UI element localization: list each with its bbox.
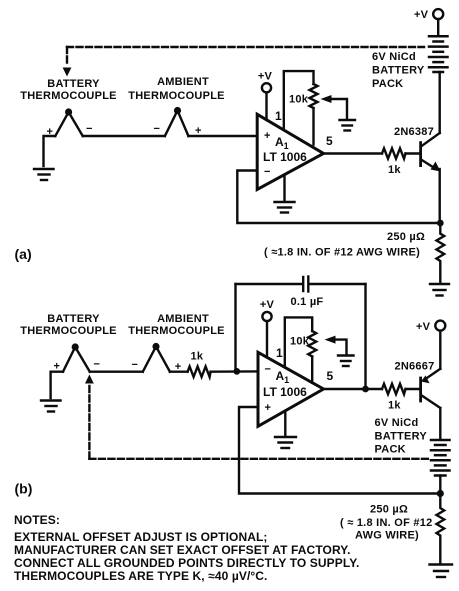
potentiometer 10k (b) [308,331,316,357]
ambient thermocouple junction (b) [143,343,170,372]
svg-text:6V NiCd: 6V NiCd [375,417,419,429]
emitter wire down to sense node (a) [439,169,441,223]
svg-text:0.1 µF: 0.1 µF [291,296,324,308]
cap left leg down to - input node (b) [234,284,236,371]
svg-text:MANUFACTURER CAN SET EXACT OFF: MANUFACTURER CAN SET EXACT OFFSET AT FAC… [14,543,351,557]
svg-text:BATTERY: BATTERY [372,65,425,77]
op-amp U2 A1 LT1006 (b) [258,352,324,426]
svg-text:−: − [94,359,100,371]
ground 250uOhm (a) [430,284,449,296]
svg-text:5: 5 [326,134,333,148]
ambient thermocouple junction (a) [165,107,189,136]
V- pin ground (a) [283,175,285,201]
svg-text:−: − [265,364,271,376]
+V terminal (b op-amp) [260,299,275,357]
svg-text:AMBIENT: AMBIENT [157,313,209,325]
wire TC1-TC2 (b) [90,371,143,373]
cap right leg down to output node (b) [364,284,366,389]
resistor 1k (a) [382,148,406,158]
label AMBIENT THERMOCOUPLE (b) [128,313,225,337]
svg-text:NOTES:: NOTES: [14,513,60,527]
op-amp U1 A1 LT1006 (a) [257,114,323,189]
svg-text:250 µΩ: 250 µΩ [387,231,425,243]
battery thermocouple junction (a) [55,108,82,136]
collector wire down to battery (b) [439,408,441,440]
svg-text:THERMOCOUPLE: THERMOCOUPLE [128,325,225,337]
battery 6V NiCd pack (b) [431,440,450,476]
label AMBIENT THERMOCOUPLE (a) [128,76,225,102]
node emitter/sense (a) [437,220,444,227]
wire 1k to - input (b) [211,370,258,373]
svg-text:THERMOCOUPLES ARE TYPE K, ≈40: THERMOCOUPLES ARE TYPE K, ≈40 µV/°C. [14,569,268,583]
svg-text:−: − [264,166,270,178]
label BATTERY THERMOCOUPLE (a) [20,78,117,102]
svg-text:+: + [264,130,270,142]
svg-text:2N6387: 2N6387 [394,126,434,138]
resistor 1k input (b) [188,367,211,377]
wire 1k to base (b) [406,388,420,390]
svg-text:EXTERNAL OFFSET ADJUST IS OPTI: EXTERNAL OFFSET ADJUST IS OPTIONAL; [14,530,268,544]
pot wiper arrow (a) [329,99,347,118]
svg-text:+V: +V [260,299,275,311]
svg-text:1: 1 [276,346,283,360]
label 6V NiCd BATTERY PACK (b) [375,417,428,456]
ground TC1 (a) [34,169,54,180]
svg-text:10k: 10k [289,94,309,106]
svg-text:AWG WIRE): AWG WIRE) [355,530,419,542]
output wire (a) [324,152,383,154]
svg-text:BATTERY: BATTERY [375,431,428,443]
svg-text:THERMOCOUPLE: THERMOCOUPLE [128,90,225,102]
svg-text:PACK: PACK [375,444,406,456]
offset pot bracket pin1 (b) [285,317,312,367]
svg-text:+V: +V [414,9,429,21]
wire TC2 to op-amp + input (a) [188,135,257,137]
resistor 250 uOhm (b) [437,494,445,564]
svg-text:250 µΩ: 250 µΩ [370,504,408,516]
svg-text:PACK: PACK [372,78,403,90]
svg-text:BATTERY: BATTERY [47,313,100,325]
op-amp internal labels (a) [263,130,307,178]
label 6V NiCd BATTERY PACK (a) [372,51,425,90]
NOTES text block [14,513,359,583]
feedback wire - input (a) [237,171,440,224]
svg-text:2N6667: 2N6667 [395,361,435,373]
wire TC1 to ground (b) [51,372,63,398]
ground pot wiper (b) [338,356,354,367]
svg-text:1k: 1k [191,351,204,363]
transistor Q1 2N6387 (a) [419,143,422,166]
emitter wire up to +V (b) [439,331,441,369]
transistor Q2 2N6667 (b) [419,378,422,401]
svg-text:THERMOCOUPLE: THERMOCOUPLE [20,325,117,337]
+ input feedback wire (b) [239,407,440,494]
wire TC1 to ground (a) [44,136,56,166]
node - input (b) [233,368,240,375]
battery thermocouple junction (b) [63,343,90,371]
node sense (b) [437,490,444,497]
ground pot wiper (a) [340,120,356,131]
svg-text:THERMOCOUPLE: THERMOCOUPLE [20,90,117,102]
capacitor 0.1uF feedback (b) [236,283,302,285]
svg-text:CONNECT ALL GROUNDED POINTS DI: CONNECT ALL GROUNDED POINTS DIRECTLY TO … [14,556,359,570]
ground TC1 (b) [41,401,61,412]
svg-text:1k: 1k [388,400,401,412]
ground 250uOhm (b) [430,565,453,578]
output wire (b) [324,388,383,390]
offset pot bracket pin1 (a) [284,71,314,129]
battery 6V NiCd pack (a) [429,36,448,72]
svg-text:1: 1 [275,109,282,123]
polarity labels TC2 (a) [154,123,202,137]
resistor 1k output (b) [382,384,406,394]
svg-text:1k: 1k [388,164,401,176]
svg-text:+V: +V [416,321,431,333]
+V terminal top right (a) [414,9,443,36]
node output (b) [362,386,369,393]
wire battery to node (b) [439,476,441,494]
svg-text:−: − [154,123,160,135]
svg-text:+V: +V [258,71,273,83]
wire 1k to base (a) [406,152,420,154]
svg-text:−: − [86,123,92,135]
svg-text:( ≈1.8 IN. OF #12 AWG WIRE): ( ≈1.8 IN. OF #12 AWG WIRE) [264,247,420,259]
wire TC1-TC2 (a) [83,135,165,137]
svg-text:−: − [132,359,138,371]
label BATTERY THERMOCOUPLE (b) [20,313,117,337]
svg-text:(b): (b) [15,481,33,497]
+V terminal (a op-amp) [258,71,273,121]
svg-text:6V NiCd: 6V NiCd [372,51,416,63]
svg-text:5: 5 [327,369,334,383]
arrowhead down at BATTERY label (a) [63,68,72,77]
arrowhead up at TC wire (b) [85,375,94,384]
collector wire up to battery (a) [439,72,441,133]
+V terminal (b right) [416,321,445,333]
thermal coupling dashed line (a) [67,47,424,66]
potentiometer 10k (a) [310,84,318,108]
resistor 250 uOhm (a) [437,223,445,282]
V- pin ground (b) [284,411,286,436]
svg-text:LT 1006: LT 1006 [263,385,307,399]
thermal coupling dashed line (b) [89,386,429,459]
svg-text:AMBIENT: AMBIENT [157,76,209,88]
pot wiper arrow (b) [333,340,347,354]
svg-text:( ≈ 1.8 IN. OF #12: ( ≈ 1.8 IN. OF #12 [340,517,432,529]
svg-text:(a): (a) [15,246,32,262]
svg-text:+: + [265,402,271,414]
svg-text:LT 1006: LT 1006 [263,150,307,164]
svg-text:BATTERY: BATTERY [47,78,100,90]
polarity labels TC1 (a) [47,123,93,138]
svg-text:10k: 10k [290,336,310,348]
wire TC2 to 1k (b) [170,371,188,373]
